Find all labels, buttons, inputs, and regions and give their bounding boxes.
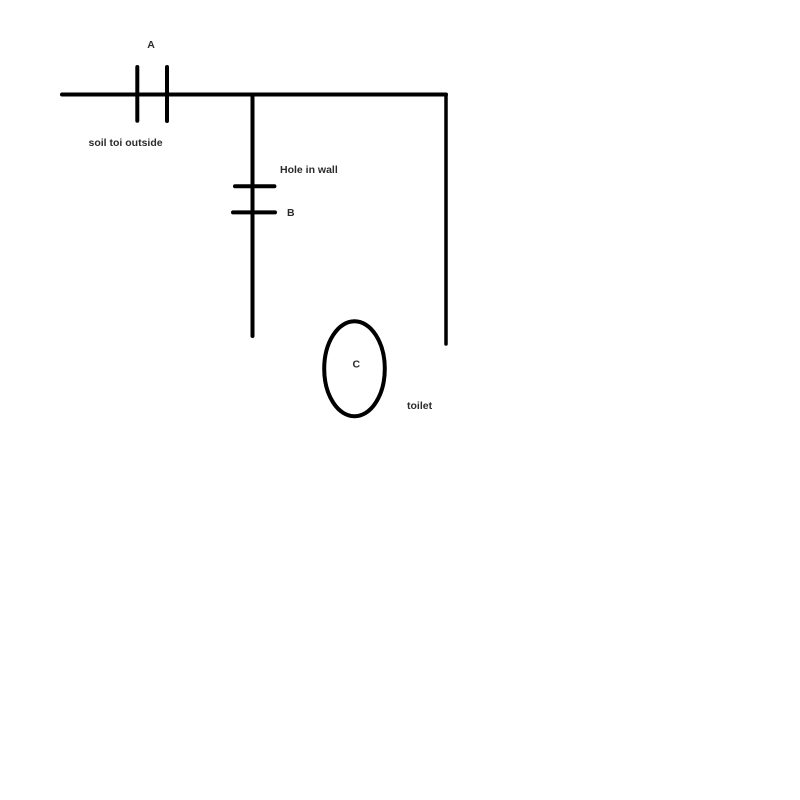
- wire: main horizontal soil pipe line: [62, 93, 446, 97]
- joint A tick 2: [165, 67, 169, 121]
- svg-text:C: C: [353, 359, 361, 371]
- joint B tick 2: [233, 210, 275, 214]
- toilet C ellipse: [324, 321, 385, 416]
- svg-text:soil toi outside: soil toi outside: [89, 137, 163, 149]
- joint A tick 1: [135, 67, 139, 121]
- joint B tick 1: [235, 184, 274, 188]
- wire: right vertical drop to toilet: [444, 95, 448, 345]
- svg-text:toilet: toilet: [407, 400, 433, 412]
- wire: middle vertical drop through wall: [251, 95, 255, 337]
- svg-text:B: B: [287, 207, 295, 219]
- svg-text:A: A: [147, 39, 155, 51]
- svg-text:Hole in wall: Hole in wall: [280, 164, 338, 176]
